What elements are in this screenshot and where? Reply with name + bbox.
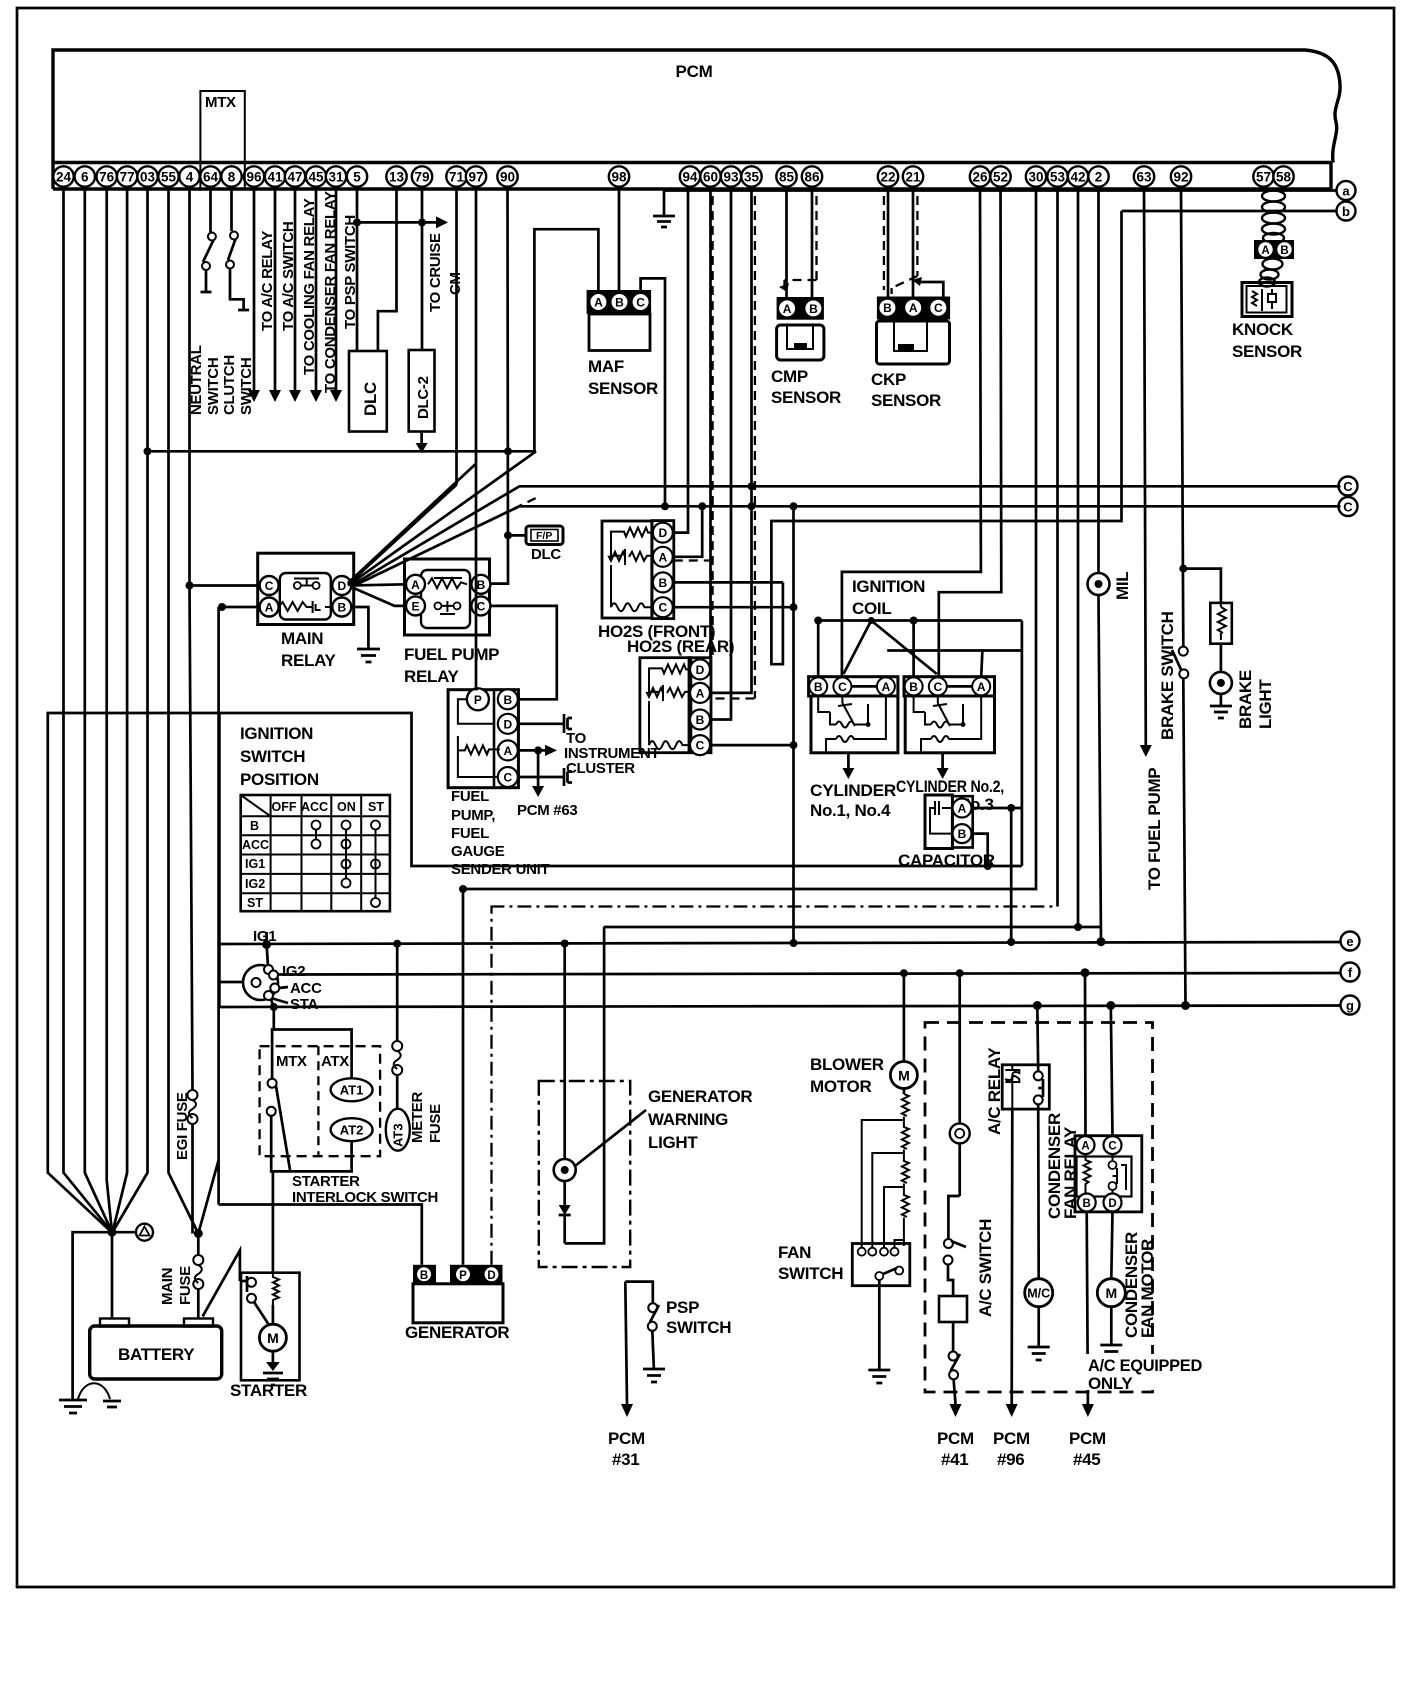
svg-text:MOTOR: MOTOR — [810, 1077, 871, 1096]
svg-text:63: 63 — [1136, 170, 1152, 185]
svg-text:A/C SWITCH: A/C SWITCH — [976, 1219, 995, 1317]
blower motor — [890, 1062, 917, 1089]
fan diagonal to y451 corner (MAF A) — [348, 451, 536, 585]
wire condenser relay B to PCM45 — [1082, 1212, 1094, 1418]
svg-text:AT2: AT2 — [340, 1122, 364, 1137]
FAN SWITCH label — [778, 1243, 843, 1283]
knock sensor body — [1242, 283, 1292, 317]
fan diagonal to pin71 — [348, 189, 457, 585]
MTX box top — [200, 91, 244, 188]
wire b-net vertical and jog to HO2S front B — [771, 211, 1121, 664]
svg-text:ACC: ACC — [242, 838, 269, 852]
svg-text:64: 64 — [203, 170, 219, 185]
svg-text:INTERLOCK SWITCH: INTERLOCK SWITCH — [292, 1189, 438, 1206]
wire generator P up — [460, 189, 1036, 1265]
DLC box — [349, 351, 387, 432]
wire DLC-2 bottom arrow — [416, 432, 428, 454]
blower resistor chain — [902, 1089, 909, 1247]
svg-text:PUMP,: PUMP, — [451, 807, 495, 824]
CAPACITOR label — [898, 851, 995, 870]
svg-text:BATTERY: BATTERY — [118, 1345, 195, 1364]
PSP switch contacts — [648, 1303, 659, 1331]
svg-text:CLUTCH: CLUTCH — [221, 355, 238, 415]
wire MAF C jog to c2 rail — [641, 278, 665, 506]
svg-text:CAPACITOR: CAPACITOR — [898, 851, 995, 870]
HO2S REAR connector strip — [689, 658, 711, 755]
PCM pin 03 — [137, 166, 157, 186]
wire PCM63 arrow — [532, 750, 544, 797]
svg-text:92: 92 — [1173, 170, 1188, 185]
PCM pin 6 — [75, 166, 95, 186]
svg-text:B: B — [615, 296, 624, 310]
condenser fan motor — [1097, 1279, 1125, 1307]
fan switch ground — [868, 1280, 890, 1383]
A/C relay contacts — [1034, 1071, 1043, 1104]
svg-text:AT3: AT3 — [391, 1123, 406, 1147]
PCM pin 86 — [802, 166, 822, 186]
wire to F/P DLC — [508, 534, 526, 537]
wire pin5 down to DLC — [356, 189, 359, 351]
TO FUEL PUMP label rotated — [1145, 768, 1164, 890]
svg-text:AT1: AT1 — [340, 1083, 364, 1098]
fuel pump relay coil — [428, 578, 467, 588]
fuel pump relay outer box — [405, 559, 490, 635]
svg-text:IGNITION: IGNITION — [852, 577, 925, 596]
coil feed rail y620 — [818, 619, 1022, 622]
wire pin93 to HO2S REAR B — [711, 189, 731, 720]
svg-text:85: 85 — [779, 170, 795, 185]
svg-text:FUEL: FUEL — [451, 788, 489, 805]
svg-text:STARTER: STARTER — [230, 1381, 307, 1400]
PCM pin 31 — [326, 166, 346, 186]
svg-text:ST: ST — [247, 896, 263, 910]
svg-text:B: B — [883, 301, 892, 315]
A/C switch thermo box — [939, 1265, 967, 1323]
junction dot pin79 cruise — [418, 218, 426, 226]
wire pin63 TO FUEL PUMP arrow — [1140, 189, 1152, 757]
wire pin4 / EGI fuse down — [190, 189, 193, 1234]
knock sensor twisted pair — [1259, 191, 1285, 287]
svg-text:A: A — [503, 744, 512, 758]
battery terminal left — [100, 1319, 129, 1327]
svg-text:BRAKE: BRAKE — [1236, 670, 1255, 729]
MIL label rotated — [1113, 572, 1132, 600]
svg-text:C: C — [838, 680, 847, 694]
wire rail a — [664, 189, 1337, 192]
svg-text:D: D — [658, 526, 667, 540]
CMP dashed shield — [779, 196, 817, 292]
TO COOLING FAN RELAY label — [301, 198, 318, 375]
node f (right border circle) — [1341, 963, 1360, 982]
svg-text:GENERATOR: GENERATOR — [405, 1323, 509, 1342]
wire pin42 down to warning light line — [1077, 189, 1080, 927]
wire ATX branch — [274, 1030, 352, 1080]
wire sender A with arrow to cluster — [518, 745, 557, 756]
BRAKE SWITCH label rotated — [1158, 611, 1177, 740]
ignition coil 2 connector — [904, 677, 995, 696]
wire pin79 to DLC-2 — [421, 189, 424, 350]
svg-text:42: 42 — [1070, 170, 1085, 185]
svg-text:53: 53 — [1050, 170, 1066, 185]
fan diagonal to pin97 — [348, 189, 476, 583]
table circles ST column — [371, 821, 380, 908]
fuel pump relay pins A E B C — [406, 575, 490, 616]
wire condenser relay A from rail f — [1081, 968, 1090, 1136]
wire HO2S FRONT B right (b-net) — [674, 581, 783, 584]
svg-text:IG2: IG2 — [245, 877, 265, 891]
battery box — [90, 1326, 222, 1379]
wire to condenser fan relay arrow — [310, 189, 322, 402]
svg-text:MAIN: MAIN — [159, 1268, 176, 1305]
svg-text:86: 86 — [804, 170, 820, 185]
EGI fan junction dot — [194, 1229, 203, 1238]
PCM pin 93 — [721, 166, 741, 186]
svg-text:NEUTRAL: NEUTRAL — [188, 345, 205, 415]
svg-text:C: C — [696, 739, 705, 753]
IG2 label — [282, 963, 305, 980]
svg-text:C: C — [477, 599, 486, 613]
svg-text:COIL: COIL — [852, 599, 891, 618]
svg-text:94: 94 — [682, 170, 698, 185]
svg-text:BRAKE SWITCH: BRAKE SWITCH — [1158, 611, 1177, 740]
wire to A/C relay arrow — [248, 189, 260, 402]
svg-text:MAIN: MAIN — [281, 629, 323, 648]
svg-text:B: B — [696, 713, 705, 727]
svg-text:A: A — [594, 296, 603, 310]
svg-text:C: C — [265, 579, 274, 593]
sender P circle and internals — [458, 688, 500, 777]
svg-text:SENSOR: SENSOR — [1232, 342, 1302, 361]
knock sensor label — [1232, 320, 1302, 361]
MTX ATX labels — [276, 1053, 349, 1070]
svg-text:RELAY: RELAY — [281, 651, 337, 670]
MAF SENSOR label — [588, 357, 658, 398]
junction dot y451 pin90 — [504, 447, 512, 455]
svg-text:PCM: PCM — [676, 62, 713, 81]
svg-text:97: 97 — [468, 170, 483, 185]
svg-text:FUSE: FUSE — [177, 1266, 194, 1305]
svg-text:M: M — [898, 1068, 910, 1084]
svg-text:FUEL: FUEL — [451, 825, 489, 842]
ignition switch enclosure wire — [219, 713, 1022, 866]
wire pin76 down — [107, 189, 112, 1232]
svg-text:M: M — [1105, 1285, 1117, 1301]
wire pin6 down — [85, 189, 112, 1232]
brake light resistor box — [1210, 603, 1232, 644]
A/C switch upper contacts — [944, 1143, 967, 1264]
svg-text:FUEL PUMP: FUEL PUMP — [404, 645, 499, 664]
svg-text:No.1, No.4: No.1, No.4 — [810, 801, 891, 820]
svg-text:METER: METER — [409, 1092, 426, 1143]
ignition coil 2 body — [905, 696, 994, 753]
IGNITION SWITCH POSITION label — [240, 724, 319, 789]
svg-text:WARNING: WARNING — [648, 1110, 728, 1129]
capacitor body — [925, 795, 952, 849]
svg-text:8: 8 — [228, 170, 236, 185]
vertical x1021.9 coil feed to stack — [1021, 621, 1024, 867]
A/C switch connector circle — [950, 1123, 970, 1143]
svg-text:SWITCH: SWITCH — [666, 1318, 731, 1337]
PCM pin 79 — [412, 166, 432, 186]
svg-text:GAUGE: GAUGE — [451, 843, 505, 860]
IGNITION COIL label — [852, 577, 925, 618]
wire coil2 B up to rail — [910, 617, 918, 678]
svg-text:GENERATOR: GENERATOR — [648, 1087, 752, 1106]
CONDENSER FAN RELAY label rotated — [1045, 1113, 1080, 1219]
svg-text:93: 93 — [723, 170, 739, 185]
blower resistor taps — [862, 1120, 904, 1247]
svg-text:D: D — [1108, 1198, 1116, 1210]
generator warning lamp — [554, 1159, 576, 1181]
svg-text:ST: ST — [368, 800, 384, 814]
svg-text:2: 2 — [1095, 170, 1103, 185]
TO PSP SWITCH label — [342, 215, 359, 329]
A/C equipped dashed box — [925, 1023, 1153, 1393]
svg-text:A: A — [977, 680, 986, 694]
svg-text:M/C: M/C — [1027, 1287, 1050, 1301]
svg-text:B: B — [1083, 1198, 1091, 1210]
PCM pin 64 — [200, 166, 220, 186]
wire TO CRUISE with arrow — [357, 216, 448, 228]
CMP SENSOR label — [771, 367, 841, 407]
PCM pin 41 — [265, 166, 285, 186]
svg-text:A: A — [658, 550, 667, 564]
condenser fan motor ground — [1100, 1307, 1122, 1358]
ground arc curve — [78, 1383, 110, 1399]
TO A/C RELAY label — [259, 231, 276, 331]
svg-text:C: C — [636, 296, 645, 310]
svg-text:TO CRUISE: TO CRUISE — [427, 233, 444, 312]
junction dot pin4 main relay C — [186, 582, 194, 590]
CYLINDER No.1 No.4 label — [810, 781, 896, 820]
svg-text:76: 76 — [99, 170, 115, 185]
fan diagonal to c rail 1 — [351, 486, 1340, 585]
junction dot rear C — [790, 741, 798, 749]
wire meter fuse to AT3 — [396, 1075, 399, 1110]
PCM pin 21 — [903, 166, 923, 186]
svg-text:58: 58 — [1276, 170, 1292, 185]
wire pin92 brake switch down to rail g — [1181, 189, 1190, 1010]
PCM pin 57 — [1253, 166, 1273, 186]
svg-text:6: 6 — [81, 170, 89, 185]
svg-text:LIGHT: LIGHT — [648, 1133, 698, 1152]
brake light lamp — [1210, 644, 1232, 694]
svg-text:IG2: IG2 — [282, 963, 305, 980]
PCM #41 label — [937, 1429, 974, 1469]
wire pin86 to CMP B — [811, 189, 814, 297]
svg-text:FAN: FAN — [778, 1243, 811, 1262]
MAIN FUSE label (rotated 2 lines) — [159, 1266, 194, 1305]
PSP SWITCH label — [666, 1298, 731, 1337]
wire A/C relay coil feed from capacitor junction to e rail — [1007, 808, 1015, 946]
svg-text:C: C — [658, 601, 667, 615]
warn light callout line — [575, 1110, 646, 1166]
svg-text:B: B — [420, 1270, 428, 1282]
svg-text:A: A — [958, 802, 967, 816]
wire pin4 to main relay C — [190, 584, 260, 587]
svg-text:45: 45 — [308, 170, 324, 185]
blower motor wire from rail f — [900, 969, 908, 1062]
svg-text:22: 22 — [880, 170, 895, 185]
svg-text:98: 98 — [611, 170, 627, 185]
A/C relay box — [1002, 1065, 1049, 1109]
svg-text:A/C RELAY: A/C RELAY — [985, 1047, 1004, 1135]
wire meter fuse from rail e — [393, 940, 401, 1041]
svg-text:B: B — [477, 578, 486, 592]
STARTER label — [230, 1381, 307, 1400]
wire warn light line to pin2 wire — [604, 926, 1101, 929]
svg-text:26: 26 — [972, 170, 988, 185]
NEUTRAL SWITCH label rotated — [188, 345, 222, 415]
svg-text:A/C EQUIPPED: A/C EQUIPPED — [1088, 1356, 1202, 1375]
svg-text:PCM: PCM — [937, 1429, 974, 1448]
CKP shield drain to C — [912, 277, 943, 297]
EGI fuse symbol — [188, 1090, 198, 1124]
condenser fan relay box — [1075, 1136, 1142, 1212]
svg-text:A: A — [696, 686, 705, 700]
svg-text:4: 4 — [186, 170, 194, 185]
wire sender C to cluster — [518, 768, 572, 786]
svg-text:57: 57 — [1256, 170, 1271, 185]
knock sensor connector A B — [1254, 240, 1294, 259]
svg-text:DLC: DLC — [361, 382, 380, 416]
interlock dashed box MTX/ATX — [260, 1046, 381, 1156]
PCM pin 55 — [158, 166, 178, 186]
svg-text:5: 5 — [353, 170, 361, 185]
starter ground arrow — [263, 1351, 283, 1385]
svg-text:P: P — [474, 693, 482, 707]
svg-text:e: e — [1346, 934, 1353, 949]
PCM pin 5 — [347, 166, 367, 186]
dashed shield pin35 — [716, 196, 755, 699]
MAIN FUSE symbol — [193, 1255, 203, 1289]
wire A/C switch to PCM41 arrow — [950, 1379, 962, 1417]
svg-text:E: E — [411, 599, 419, 613]
svg-text:C: C — [503, 771, 512, 785]
svg-text:PCM: PCM — [1069, 1429, 1106, 1448]
svg-text:B: B — [337, 601, 346, 615]
main relay contact symbol — [294, 579, 320, 590]
svg-text:77: 77 — [120, 170, 135, 185]
svg-text:PCM #63: PCM #63 — [517, 802, 577, 819]
wire coil2 A jog — [887, 651, 1022, 678]
M/C compressor clutch — [1025, 1279, 1053, 1307]
wire interlock down to starter — [271, 1116, 273, 1273]
TO INSTRUMENT CLUSTER label — [564, 730, 659, 777]
A/C RELAY label rotated — [985, 1047, 1004, 1135]
clutch switch — [226, 189, 249, 310]
F/P DLC box — [526, 526, 563, 563]
svg-text:47: 47 — [287, 170, 302, 185]
capacitor connector strip — [952, 796, 972, 847]
PCM pin 63 — [1134, 166, 1154, 186]
wire pin85 to CMP A — [785, 189, 788, 297]
BRAKE LIGHT label rotated — [1236, 670, 1275, 729]
CYLINDER No.2 No.3 label — [896, 777, 1004, 814]
MAF sensor body — [589, 314, 650, 351]
PCM pin 96 — [244, 166, 264, 186]
wire pin35 to HO2S REAR A — [711, 189, 752, 693]
STARTER INTERLOCK SWITCH label — [292, 1173, 438, 1206]
CKP connector — [877, 297, 950, 320]
svg-text:b: b — [1342, 204, 1350, 219]
svg-text:52: 52 — [993, 170, 1008, 185]
MAF sensor connector — [587, 290, 652, 314]
svg-text:35: 35 — [744, 170, 760, 185]
wire battery negative to ground — [73, 1232, 112, 1400]
A/C SWITCH label rotated — [976, 1219, 995, 1317]
PCM pin 98 — [609, 166, 629, 186]
wire MAF A up-left-down — [534, 229, 598, 451]
svg-text:#31: #31 — [612, 1450, 639, 1469]
svg-text:FAN MOTOR: FAN MOTOR — [1138, 1239, 1157, 1338]
svg-text:D: D — [487, 1270, 495, 1282]
HO2S REAR sensor body — [640, 658, 691, 753]
PCM pin 26 — [970, 166, 990, 186]
svg-text:SWITCH: SWITCH — [238, 358, 255, 415]
circled A node — [112, 1224, 153, 1241]
svg-text:BLOWER: BLOWER — [810, 1055, 884, 1074]
ignition switch position table — [241, 795, 390, 911]
svg-text:24: 24 — [56, 170, 72, 185]
wire pin03 down — [113, 189, 148, 1232]
TO A/C SWITCH label — [280, 222, 297, 331]
DLC-2 box — [409, 350, 435, 432]
ignition coil 1 connector — [809, 677, 898, 696]
battery terminal right — [184, 1319, 213, 1327]
svg-text:ACC: ACC — [290, 980, 322, 997]
svg-text:SENSOR: SENSOR — [588, 379, 658, 398]
A/C switch lower contacts — [949, 1322, 960, 1379]
MAIN RELAY label — [281, 629, 337, 670]
svg-text:HO2S (REAR): HO2S (REAR) — [627, 637, 734, 656]
wire pin52 to ignition coil2 C — [939, 189, 1002, 677]
wire pin55 to EGI fan — [169, 189, 199, 1234]
svg-text:IGNITION: IGNITION — [240, 724, 313, 743]
BLOWER MOTOR label — [810, 1055, 884, 1096]
ignition key switch rotor — [243, 965, 279, 1000]
wire pin13 to DLC — [378, 189, 397, 351]
PCM pin 92 — [1171, 166, 1191, 186]
svg-text:ACC: ACC — [301, 800, 328, 814]
junction dot pin42 line — [1074, 923, 1082, 931]
TO CRUISE CM label rotated — [427, 233, 464, 312]
svg-text:90: 90 — [500, 170, 515, 185]
svg-text:SENSOR: SENSOR — [871, 391, 941, 410]
PCM pin 13 — [386, 166, 406, 186]
wire corner from x47.8 joining battery fan — [48, 713, 220, 1232]
junction dot sender A — [534, 746, 542, 754]
svg-text:CYLINDER: CYLINDER — [810, 781, 896, 800]
FUEL PUMP FUEL GAUGE SENDER UNIT label — [451, 788, 550, 878]
svg-text:CMP: CMP — [771, 367, 808, 386]
table circles ACC column — [312, 821, 321, 849]
svg-text:CYLINDER No.2,: CYLINDER No.2, — [896, 777, 1004, 796]
svg-text:SWITCH: SWITCH — [778, 1264, 843, 1283]
PCM #31 label — [608, 1429, 645, 1469]
svg-text:03: 03 — [140, 170, 156, 185]
svg-text:TO FUEL PUMP: TO FUEL PUMP — [1145, 768, 1164, 890]
PCM pin 45 — [306, 166, 326, 186]
svg-text:55: 55 — [161, 170, 177, 185]
PCM pin 4 — [179, 166, 199, 186]
wire pin77 down — [113, 189, 128, 1232]
svg-text:D: D — [337, 579, 346, 593]
svg-text:a: a — [1342, 184, 1350, 199]
starter interlock switch contacts — [267, 1079, 290, 1170]
node e (right border circle) — [1341, 932, 1360, 951]
PCM pin 8 — [221, 166, 241, 186]
